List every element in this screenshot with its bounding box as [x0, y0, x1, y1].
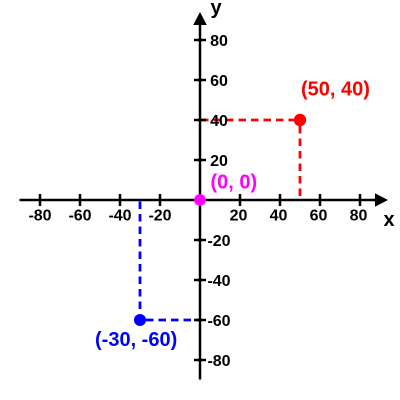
- blue dashed horizontal line y=-60 from point to y-axis: [146, 319, 199, 322]
- x-axis tick -80: [39, 194, 42, 206]
- x-axis tick -20: [159, 194, 162, 206]
- x-axis tick 20: [239, 194, 242, 206]
- x-axis tick -40: [119, 194, 122, 206]
- y-axis tick -40: [194, 279, 206, 282]
- x-axis tick 60: [319, 194, 322, 206]
- svg-text:(0, 0): (0, 0): [211, 172, 258, 194]
- red dashed vertical line x=50 from point down to x-axis: [299, 126, 302, 199]
- y-axis tick 40: [194, 119, 206, 122]
- y-axis arrowhead: [193, 12, 207, 25]
- svg-text:-40: -40: [108, 208, 131, 225]
- svg-text:-20: -20: [207, 233, 230, 250]
- y-axis tick 60: [194, 79, 206, 82]
- svg-text:x: x: [384, 209, 395, 231]
- point (-30, -60): [134, 314, 146, 326]
- svg-text:-20: -20: [148, 208, 171, 225]
- svg-text:-80: -80: [28, 208, 51, 225]
- y-axis tick -20: [194, 239, 206, 242]
- svg-text:20: 20: [210, 153, 228, 170]
- svg-text:80: 80: [350, 208, 368, 225]
- svg-text:(50, 40): (50, 40): [301, 79, 370, 101]
- svg-text:60: 60: [210, 73, 228, 90]
- svg-text:40: 40: [270, 208, 288, 225]
- svg-text:80: 80: [210, 33, 228, 50]
- x-axis tick -60: [79, 194, 82, 206]
- x-axis tick 80: [359, 194, 362, 206]
- blue dashed vertical line x=-30 from x-axis down to point: [139, 202, 142, 315]
- y-axis tick -60: [194, 319, 206, 322]
- svg-text:-60: -60: [68, 208, 91, 225]
- y-axis tick -80: [194, 359, 206, 362]
- svg-text:60: 60: [310, 208, 328, 225]
- x-axis: [20, 199, 377, 202]
- svg-text:-80: -80: [207, 353, 230, 370]
- red dashed horizontal line y=40 from y-axis to point (50,40): [201, 119, 300, 122]
- svg-text:(-30, -60): (-30, -60): [95, 329, 177, 351]
- point (50, 40): [294, 114, 306, 126]
- x-axis tick 40: [279, 194, 282, 206]
- svg-text:-60: -60: [207, 313, 230, 330]
- y-axis: [199, 25, 202, 380]
- y-axis tick 20: [194, 159, 206, 162]
- svg-text:-40: -40: [207, 273, 230, 290]
- svg-text:y: y: [211, 0, 223, 19]
- y-axis tick 80: [194, 39, 206, 42]
- svg-text:20: 20: [230, 208, 248, 225]
- point (0, 0): [194, 194, 206, 206]
- svg-text:40: 40: [210, 113, 228, 130]
- x-axis arrowhead: [375, 193, 388, 207]
